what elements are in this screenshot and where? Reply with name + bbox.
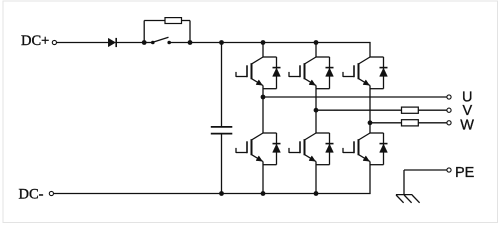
wire leg1 emitter to DC- bus xyxy=(262,162,264,194)
node A (relay left junction) xyxy=(142,40,147,45)
wire DC+ bus cap to leg1 xyxy=(222,42,264,44)
freewheel diode D2 xyxy=(263,57,281,89)
node leg1 top xyxy=(261,40,266,45)
wire phase W rail xyxy=(370,122,447,124)
transistor Q1 (upper IGBT leg 1) xyxy=(236,57,263,86)
resistor R3 (phase W) xyxy=(402,120,419,126)
terminal DC+ xyxy=(52,40,56,44)
wire leg2 top bus to Q3 collector xyxy=(315,42,317,57)
resistor R2 (phase V) xyxy=(402,107,419,113)
wire DC- bus cap to leg1 xyxy=(222,193,264,195)
freewheel diode D5 xyxy=(316,133,334,165)
transistor Q2 (lower IGBT leg 1) xyxy=(236,133,263,162)
terminal U xyxy=(447,95,451,99)
svg-text:V: V xyxy=(463,103,473,119)
terminal V xyxy=(447,108,451,112)
node leg2 top xyxy=(314,40,319,45)
node leg1 bottom xyxy=(261,191,266,196)
wire DC- bus leg1 to leg2 xyxy=(263,193,316,195)
wire phase U rail xyxy=(263,96,447,98)
wire DC+ bus leg2 to leg3 corner xyxy=(316,42,371,44)
wire leg3 phase node vertical xyxy=(369,86,371,134)
node C1 top xyxy=(219,40,224,45)
freewheel diode D7 xyxy=(370,133,388,165)
wire leg1 phase node vertical xyxy=(262,86,264,134)
node phase tap leg1 xyxy=(261,95,266,100)
resistor R1 (precharge, parallel with switch) xyxy=(144,18,190,43)
node B (relay right junction) xyxy=(188,40,193,45)
freewheel diode D3 xyxy=(263,133,281,165)
svg-text:W: W xyxy=(460,118,474,134)
transistor Q4 (lower IGBT leg 2) xyxy=(289,133,316,162)
wire leg3 top bus to Q5 collector xyxy=(369,42,371,57)
terminal DC- xyxy=(49,191,53,195)
wire DC- bus xyxy=(54,193,222,195)
wire leg2 emitter to DC- bus xyxy=(315,162,317,194)
switch S1 (precharge bypass contact) xyxy=(144,37,190,44)
node leg2 bottom xyxy=(314,191,319,196)
freewheel diode D4 xyxy=(316,57,334,89)
wire phase V rail xyxy=(316,109,447,111)
transistor Q6 (lower IGBT leg 3) xyxy=(343,133,370,162)
node phase tap leg2 xyxy=(314,108,319,113)
wire leg1 top bus to Q1 collector xyxy=(262,42,264,57)
svg-text:DC+: DC+ xyxy=(21,33,49,49)
node C1 bottom xyxy=(219,191,224,196)
diode D1 xyxy=(108,38,116,47)
freewheel diode D6 xyxy=(370,57,388,89)
wire DC- bus leg2 to leg3 xyxy=(316,193,371,195)
wire diode D1 to node A xyxy=(116,42,144,44)
ground (protective earth) xyxy=(396,195,420,203)
wire DC+ bus leg1 to leg2 xyxy=(263,42,316,44)
wire node B to capacitor node xyxy=(190,42,222,44)
wire PE xyxy=(404,170,447,195)
svg-text:PE: PE xyxy=(455,165,475,181)
terminal PE xyxy=(447,168,451,172)
wire leg3 emitter to DC- bus xyxy=(369,162,371,195)
transistor Q3 (upper IGBT leg 2) xyxy=(289,57,316,86)
wire leg2 phase node vertical xyxy=(315,86,317,134)
transistor Q5 (upper IGBT leg 3) xyxy=(343,57,370,86)
terminal W xyxy=(447,121,451,125)
capacitor C1 (DC link) xyxy=(211,43,233,194)
wire DC+ terminal to diode D1 xyxy=(57,42,108,44)
svg-text:DC-: DC- xyxy=(19,187,44,203)
node phase tap leg3 xyxy=(368,120,373,125)
